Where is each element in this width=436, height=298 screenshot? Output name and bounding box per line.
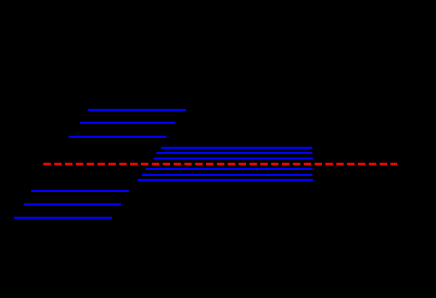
interval line C2 — [156, 152, 312, 154]
interval line T3 — [69, 136, 167, 138]
interval line C1 — [161, 147, 312, 149]
red dashed reference line — [43, 163, 397, 165]
interval line B3 — [14, 217, 112, 219]
interval line C3 — [154, 157, 314, 159]
interval line B1 — [31, 190, 129, 192]
interval line C6 — [138, 179, 314, 181]
interval line T1 — [88, 109, 186, 111]
interval line C5 — [142, 174, 312, 176]
interval line C4 — [145, 168, 312, 170]
interval line B2 — [24, 203, 121, 205]
interval line T2 — [80, 122, 175, 124]
